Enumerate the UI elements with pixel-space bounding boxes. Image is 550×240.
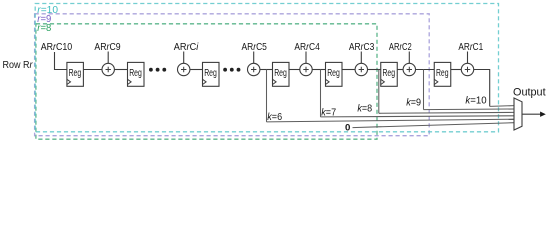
wire [83,69,102,71]
bus wire constant 0 [353,123,515,128]
svg-text:0: 0 [345,123,350,133]
svg-text:Output: Output [513,87,546,99]
wire with tap node k8 [368,69,381,71]
dashed region box r=10 [35,4,498,132]
register Reg2 [128,62,145,86]
register Reg7 [434,62,451,86]
wire [114,69,127,71]
adder U9 [102,52,114,76]
register Reg1 [67,62,84,86]
svg-text:Reg: Reg [69,68,82,79]
svg-text:ARrC4: ARrC4 [294,42,320,53]
bus wire k=10 [490,105,514,108]
svg-text:k=8: k=8 [357,103,372,115]
wire with tap node k6 [260,69,273,71]
wire k=10 tap (chain output) [474,70,490,107]
svg-text:ARrC1: ARrC1 [458,42,483,53]
svg-text:Reg: Reg [204,68,217,79]
wire [451,69,462,71]
wire [190,69,203,71]
bus wire k=9 [424,108,515,111]
adder U1 [461,52,473,76]
register Reg6 [381,62,398,86]
dashed region box r=8 [36,24,377,139]
svg-text:ARrCi: ARrCi [174,42,199,53]
svg-text:k=7: k=7 [321,107,336,119]
svg-text:k=10: k=10 [465,94,486,106]
dashed region box r=9 [35,14,430,136]
wire input from ARrC10 [55,52,67,70]
adder Ui [178,52,190,76]
svg-text:k=9: k=9 [406,96,421,108]
svg-text:ARrC10: ARrC10 [41,42,73,53]
wire with tap node k7 [312,69,325,71]
svg-text:ARrC3: ARrC3 [349,42,375,53]
svg-text:ARrC2: ARrC2 [389,42,412,53]
bus wire k=8 [379,111,514,114]
svg-text:Reg: Reg [129,68,142,79]
svg-text:k=6: k=6 [267,111,282,123]
wire tap k=7 vertical [320,70,322,117]
multiplexer MUX [514,98,522,130]
wire with tap node k9 [416,69,435,71]
svg-text:ARrC5: ARrC5 [242,42,268,53]
svg-text:Reg: Reg [274,68,287,79]
adder U2 [403,52,415,76]
wire tap k=9 vertical [423,70,425,110]
ellipsis dots 2 [223,68,240,72]
wire [342,69,355,71]
ellipsis dots 1 [149,68,166,72]
svg-text:Reg: Reg [382,68,395,79]
svg-text:Row Rr: Row Rr [3,60,33,71]
adder U5 [248,52,260,76]
register Reg5 [326,62,343,86]
adder U4 [300,52,312,76]
svg-text:Reg: Reg [436,68,449,79]
svg-text:r=10: r=10 [37,4,58,16]
bus wire k=7 [321,116,515,117]
output wire with arrow [522,113,541,115]
register Reg3 [203,62,220,86]
wire tap k=8 vertical [378,70,380,114]
register Reg4 [273,62,290,86]
bus wire k=6 [267,119,515,122]
wire [289,69,300,71]
adder U3 [355,52,367,76]
svg-text:ARrC9: ARrC9 [94,42,120,53]
wire tap k=6 vertical [266,70,268,122]
svg-text:Reg: Reg [327,68,340,79]
wire [397,69,403,71]
